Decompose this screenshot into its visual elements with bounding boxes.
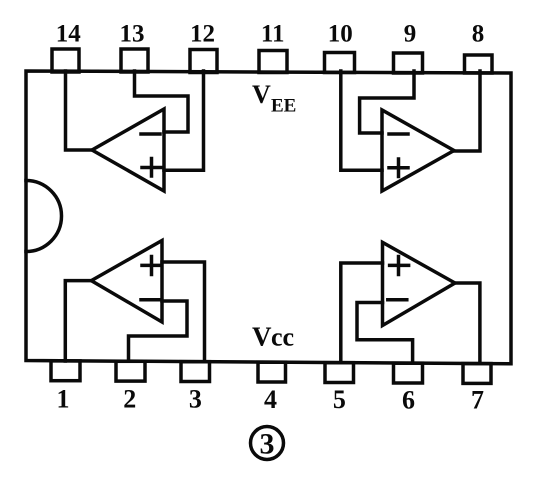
- svg-text:V: V: [252, 80, 271, 109]
- svg-text:7: 7: [471, 386, 484, 415]
- svg-text:6: 6: [402, 386, 415, 415]
- svg-text:V: V: [252, 322, 272, 352]
- svg-text:4: 4: [264, 385, 277, 414]
- svg-text:1: 1: [57, 385, 70, 414]
- svg-text:8: 8: [472, 21, 485, 48]
- svg-text:EE: EE: [271, 96, 296, 117]
- svg-text:12: 12: [190, 21, 215, 48]
- svg-text:11: 11: [261, 21, 285, 48]
- svg-text:3: 3: [189, 385, 202, 414]
- svg-text:9: 9: [404, 21, 417, 48]
- svg-text:14: 14: [56, 21, 82, 48]
- svg-text:10: 10: [328, 21, 353, 48]
- svg-text:2: 2: [123, 385, 136, 414]
- svg-text:3: 3: [260, 428, 275, 461]
- svg-text:13: 13: [120, 21, 145, 48]
- svg-text:cc: cc: [271, 323, 294, 352]
- svg-text:5: 5: [333, 385, 346, 414]
